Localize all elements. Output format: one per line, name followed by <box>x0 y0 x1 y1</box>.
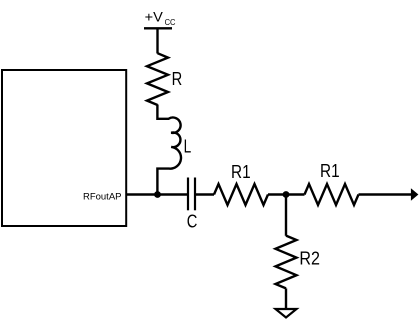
inductor L <box>157 105 181 194</box>
wire output <box>359 193 412 195</box>
wire pin to C <box>126 193 187 195</box>
resistor R <box>147 53 168 105</box>
ground <box>276 309 297 318</box>
svg-text:R: R <box>172 69 183 89</box>
power +VCC rail bar <box>144 27 172 29</box>
wire R1 to node 2 <box>268 193 305 195</box>
node junction 2 <box>283 191 290 198</box>
svg-text:+V: +V <box>145 9 163 24</box>
node junction 1 <box>154 191 161 198</box>
output arrowhead <box>411 188 419 200</box>
capacitor C plate 1 <box>187 178 189 211</box>
svg-text:RFoutAP: RFoutAP <box>83 191 122 202</box>
wire node 2 to R2 <box>285 195 287 236</box>
svg-text:R2: R2 <box>299 249 320 269</box>
wire VCC to R <box>156 28 158 53</box>
wire R2 to ground <box>285 288 287 309</box>
resistor R1 (second) <box>305 184 359 205</box>
svg-text:R1: R1 <box>320 161 340 181</box>
wire C to R1 <box>195 193 214 195</box>
svg-text:C: C <box>187 211 198 231</box>
capacitor C plate 2 <box>194 178 196 211</box>
resistor R1 (first) <box>214 184 268 205</box>
svg-text:CC: CC <box>165 18 176 27</box>
svg-text:L: L <box>184 136 192 156</box>
IC block U1 <box>2 70 126 226</box>
resistor R2 <box>276 236 297 289</box>
svg-text:R1: R1 <box>231 162 251 182</box>
